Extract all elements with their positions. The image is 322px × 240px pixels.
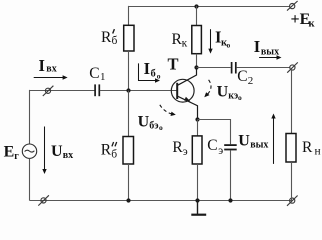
resistor Rn <box>286 134 296 163</box>
svg-text:о: о <box>159 123 163 132</box>
svg-text:к: к <box>309 19 316 30</box>
arrow Uvx <box>42 127 46 175</box>
source Eg circle <box>22 144 36 158</box>
dashed arc Ubeo <box>160 105 176 116</box>
svg-text:к: к <box>182 38 188 50</box>
svg-text:T: T <box>168 55 179 74</box>
svg-text:I: I <box>39 56 45 75</box>
node bottom ground junction <box>195 198 199 202</box>
resistor R'b <box>124 25 134 51</box>
svg-text:э: э <box>218 145 223 157</box>
wire source top: base wire corner down to Eg <box>29 90 31 144</box>
wire Rk top <box>196 6 198 26</box>
resistor Re <box>192 136 202 164</box>
svg-text:I: I <box>144 59 150 78</box>
wire emitter node to Re <box>197 120 199 136</box>
capacitor Ce <box>224 144 237 150</box>
svg-text:U: U <box>138 113 150 130</box>
arrow Ibo (L-shaped) <box>139 63 161 82</box>
arrow Uvyx <box>271 114 275 164</box>
svg-text:э: э <box>183 146 188 158</box>
svg-text:R: R <box>172 139 183 156</box>
label Eg <box>4 144 20 163</box>
svg-text:кэ: кэ <box>228 90 238 101</box>
resistor Rk <box>192 26 202 54</box>
svg-text:R: R <box>101 29 112 46</box>
wire Rk bottom to collector node <box>196 54 198 68</box>
transistor T collector lead <box>178 68 197 86</box>
svg-text:б: б <box>111 148 117 160</box>
svg-text:U: U <box>238 132 250 149</box>
svg-text:вх: вх <box>46 64 56 75</box>
svg-text:о: о <box>227 41 231 50</box>
wire R'b top <box>128 6 130 25</box>
transistor T emitter lead with arrow <box>178 96 198 119</box>
wire collector node to C2 <box>197 67 231 69</box>
label Ce <box>207 137 223 157</box>
transistor T circle <box>171 79 194 102</box>
arrow Ivx <box>34 75 68 79</box>
svg-text:U: U <box>217 84 229 101</box>
wire top supply rail <box>129 6 290 8</box>
wire base segment right of C1 <box>100 90 177 92</box>
node collector <box>194 65 198 69</box>
wire output terminal down to Rn <box>291 70 293 134</box>
node emitter <box>195 117 199 121</box>
node bottom R''b junction <box>126 198 130 202</box>
wire input base segment left <box>30 90 95 92</box>
label Uvx <box>51 143 73 161</box>
svg-text:б: б <box>151 69 156 80</box>
ground <box>191 201 206 215</box>
svg-text:C: C <box>89 65 99 82</box>
label Rk <box>172 31 188 50</box>
dashed arc Ukeo <box>204 80 211 97</box>
label Ukeo <box>217 84 242 102</box>
label Ubeo <box>138 113 163 131</box>
wire C2 to output terminal <box>237 67 290 69</box>
transistor T base bar <box>176 83 178 99</box>
svg-text:бэ: бэ <box>149 120 158 131</box>
label Ibo <box>144 59 161 81</box>
terminal bottom left <box>38 195 49 205</box>
wire R'b bottom to base node <box>128 51 130 91</box>
capacitor C1 <box>95 84 99 96</box>
svg-text:вх: вх <box>63 150 73 161</box>
label Ivx <box>39 56 57 75</box>
svg-text:б: б <box>112 35 118 47</box>
wire Ce bottom <box>230 150 232 200</box>
label C1 <box>89 65 105 83</box>
label T <box>168 55 179 74</box>
svg-text:2: 2 <box>248 75 254 87</box>
wire Re bottom <box>197 164 199 201</box>
capacitor C2 <box>232 62 236 74</box>
label R'b <box>101 29 118 47</box>
wire emitter node to Ce branch <box>198 120 231 145</box>
svg-text:1: 1 <box>100 71 106 83</box>
label Re <box>172 139 187 158</box>
svg-text:C: C <box>207 137 217 154</box>
arrow Ivyx <box>259 55 281 59</box>
svg-text:R: R <box>101 142 112 159</box>
label Iko <box>215 28 231 50</box>
arrow Iko <box>208 29 212 53</box>
svg-text:о: о <box>157 72 161 81</box>
svg-text:I: I <box>254 37 260 56</box>
svg-text:C: C <box>237 68 247 85</box>
label Rn <box>302 139 321 157</box>
wire Eg bottom to corner <box>29 158 31 200</box>
label Uvyx <box>238 132 268 150</box>
label +Ek <box>291 11 316 30</box>
node top rail / Rk junction <box>194 4 198 8</box>
resistor R''b <box>123 137 134 165</box>
terminal +Ek <box>287 1 298 11</box>
terminal bottom right <box>287 196 298 206</box>
svg-text:E: E <box>4 144 15 161</box>
svg-text:R: R <box>302 139 313 156</box>
terminal input <box>43 86 54 96</box>
node bottom Ce junction <box>228 198 232 202</box>
wire R''b bottom <box>128 164 130 201</box>
svg-text:U: U <box>51 143 63 160</box>
svg-text:г: г <box>14 151 19 162</box>
terminal output <box>287 62 298 72</box>
svg-text:вых: вых <box>250 140 268 151</box>
node bias divider junction <box>126 88 130 92</box>
label Ivyx <box>254 37 279 57</box>
svg-text:вых: вых <box>261 46 279 57</box>
svg-text:о: о <box>238 93 242 102</box>
wire bottom rail <box>30 200 292 202</box>
svg-text:н: н <box>315 145 321 157</box>
label C2 <box>237 68 253 87</box>
svg-text:+E: +E <box>291 11 311 28</box>
wire Rn bottom to corner <box>291 162 293 201</box>
label R''b <box>101 142 118 161</box>
wire base node to R''b <box>128 91 130 137</box>
